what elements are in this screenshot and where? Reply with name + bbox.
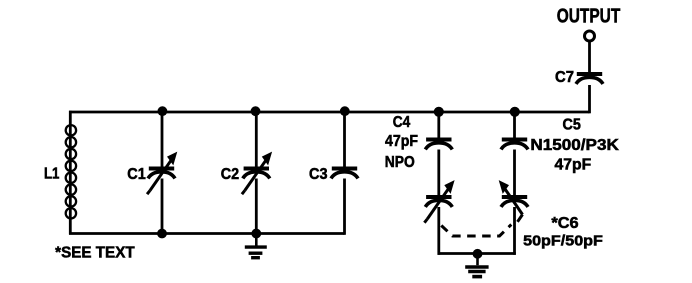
svg-text:L1: L1: [44, 165, 60, 182]
inductor L1: [66, 111, 76, 235]
wire output vertical upper: [588, 41, 591, 73]
wire C4-C6 branch middle: [437, 150, 440, 196]
svg-text:C7: C7: [555, 69, 574, 86]
svg-text:NPO: NPO: [385, 154, 415, 171]
capacitor C6 right section (variable, mirrored): [501, 185, 528, 222]
svg-text:47pF: 47pF: [385, 133, 418, 150]
capacitor C3 (fixed): [331, 169, 358, 179]
capacitor C2 (variable): [242, 157, 270, 194]
C6 gang dashed link: [441, 225, 511, 237]
capacitor C7 (fixed): [576, 74, 603, 84]
wire C2 branch upper: [255, 112, 258, 167]
junction dot C1 top: [158, 106, 168, 116]
wire C2 branch lower: [255, 179, 258, 234]
wire C6 bottom rail: [438, 252, 516, 255]
ground symbol (C6 node): [465, 254, 488, 277]
wire C3 branch lower: [343, 179, 346, 235]
wire output vertical lower: [588, 85, 591, 113]
junction dot C2 bottom (ground node): [251, 229, 261, 239]
wire top rail: [69, 111, 590, 114]
capacitor C1 (variable): [147, 157, 175, 194]
svg-text:*C6: *C6: [551, 215, 578, 232]
junction dot C5 top: [510, 107, 520, 117]
svg-text:50pF/50pF: 50pF/50pF: [523, 233, 603, 250]
svg-text:OUTPUT: OUTPUT: [557, 6, 621, 28]
svg-text:N1500/P3K: N1500/P3K: [530, 137, 619, 154]
svg-text:*SEE TEXT: *SEE TEXT: [55, 244, 135, 261]
capacitor C4 (fixed): [425, 140, 452, 150]
capacitor C6 left section (variable): [424, 185, 452, 222]
capacitor C5 (fixed): [501, 140, 528, 150]
svg-text:47pF: 47pF: [555, 156, 592, 173]
wire C1 branch upper: [161, 112, 164, 167]
svg-text:C4: C4: [393, 114, 411, 131]
wire C4 branch upper: [437, 112, 440, 138]
wire C3 branch upper: [343, 112, 346, 167]
ground symbol (C2 node): [245, 234, 267, 258]
svg-text:C1: C1: [127, 166, 146, 183]
svg-text:C2: C2: [221, 166, 239, 183]
wire C6 left branch lower: [437, 207, 440, 255]
junction dot C3 top: [340, 106, 350, 116]
wire C5-C6 branch middle: [513, 150, 516, 196]
output terminal: [585, 31, 595, 41]
wire C1 branch lower: [161, 179, 164, 234]
wire bottom rail: [69, 232, 345, 235]
svg-text:C3: C3: [309, 166, 328, 183]
junction dot C2 top: [251, 106, 261, 116]
svg-text:C5: C5: [563, 116, 581, 133]
wire C5 branch upper: [513, 112, 516, 138]
junction dot C4 top: [434, 107, 444, 117]
junction dot C6 ground node: [473, 249, 483, 259]
junction dot C1 bottom: [157, 229, 167, 239]
wire C6 right branch lower: [513, 207, 516, 255]
